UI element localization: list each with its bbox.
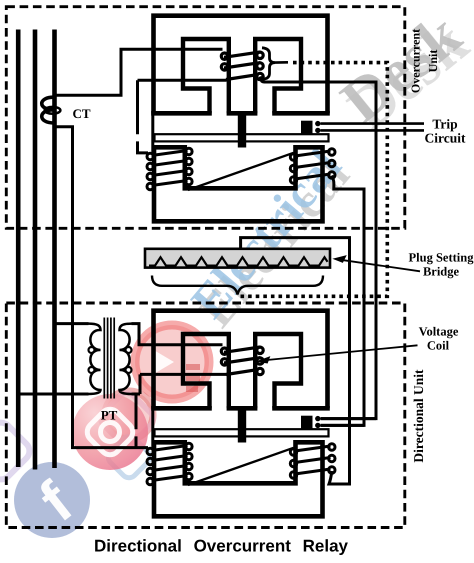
svg-text:Overcurrent: Overcurrent bbox=[409, 29, 423, 93]
svg-text:PT: PT bbox=[101, 408, 118, 423]
svg-text:Circuit: Circuit bbox=[425, 130, 466, 145]
svg-text:Plug Setting: Plug Setting bbox=[409, 251, 474, 265]
svg-text:CT: CT bbox=[72, 106, 90, 121]
svg-text:Trip: Trip bbox=[432, 116, 457, 131]
svg-text:Bridge: Bridge bbox=[423, 265, 460, 279]
svg-text:Directional Unit: Directional Unit bbox=[411, 369, 426, 463]
svg-text:Voltage: Voltage bbox=[419, 324, 459, 338]
svg-text:Directional Overcurrent Relay: Directional Overcurrent Relay bbox=[94, 537, 349, 556]
svg-text:Coil: Coil bbox=[427, 338, 450, 352]
svg-text:Unit: Unit bbox=[426, 50, 440, 73]
